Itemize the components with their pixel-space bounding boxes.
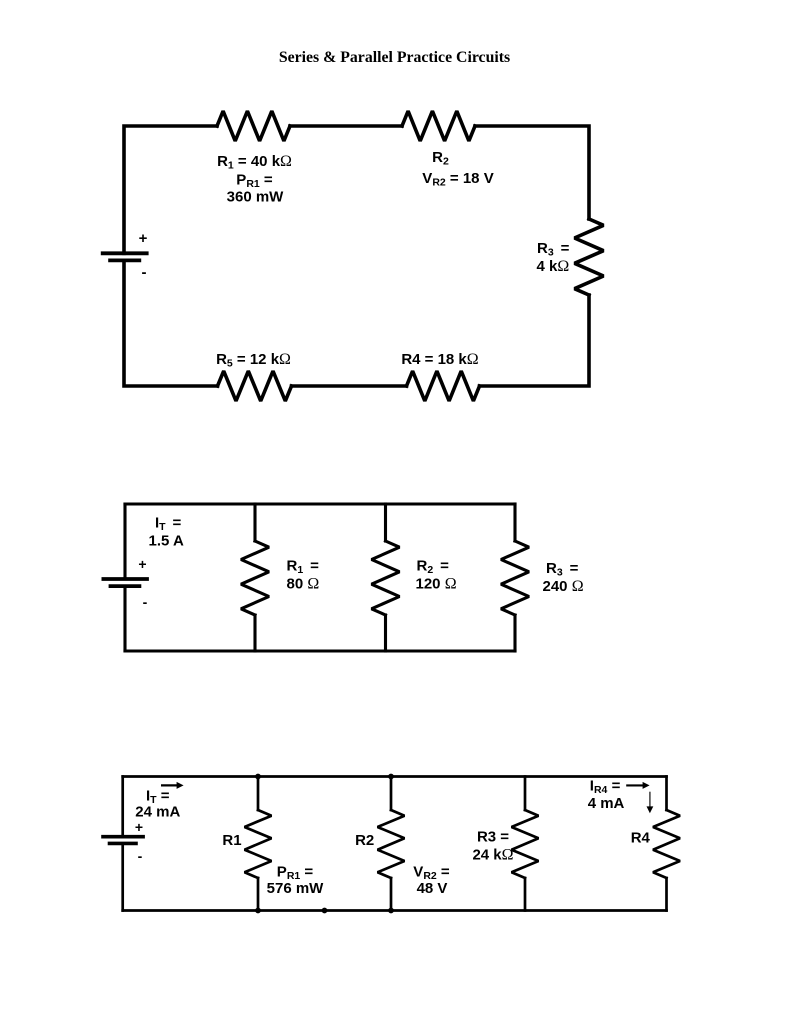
svg-text:-: - <box>138 848 143 864</box>
svg-text:4 mA: 4 mA <box>588 795 625 812</box>
svg-text:48 V: 48 V <box>417 880 448 897</box>
wire bottom <box>123 909 667 912</box>
wire top-left + left upper <box>124 126 217 253</box>
svg-text:240 Ω: 240 Ω <box>543 578 584 595</box>
wire branch R1 bottom <box>253 615 256 651</box>
svg-text:PR1 =: PR1 = <box>236 172 273 191</box>
svg-text:R5 = 12 kΩ: R5 = 12 kΩ <box>216 351 291 370</box>
arrow I_R4 current right <box>626 782 649 789</box>
wire branch R1 top <box>253 504 256 541</box>
wire right upper <box>513 504 516 541</box>
wire bottom <box>125 649 515 652</box>
resistor R3 <box>501 541 529 615</box>
svg-text:R3 =: R3 = <box>546 560 579 579</box>
wire top <box>125 502 515 505</box>
svg-text:R2: R2 <box>432 149 449 168</box>
battery V1 plates <box>101 253 149 260</box>
wire left upper <box>123 504 126 579</box>
wire branch R2 top <box>384 504 387 541</box>
svg-text:360 mW: 360 mW <box>227 189 285 206</box>
svg-text:120 Ω: 120 Ω <box>416 576 457 593</box>
svg-text:4 kΩ: 4 kΩ <box>537 258 570 275</box>
wire branch R2 bottom <box>384 615 387 651</box>
svg-text:R1 = 40 kΩ: R1 = 40 kΩ <box>217 153 292 172</box>
svg-text:+: + <box>139 230 148 247</box>
wire branch R3 top <box>524 777 527 811</box>
svg-text:VR2 = 18 V: VR2 = 18 V <box>422 170 493 189</box>
svg-text:R3 =: R3 = <box>477 829 509 846</box>
battery V3 plates <box>101 837 145 844</box>
wire left upper <box>121 777 124 837</box>
resistor R3 <box>512 810 539 878</box>
junction node bottom R2 <box>388 908 394 914</box>
resistor R2 <box>372 541 400 615</box>
svg-text:R1: R1 <box>222 832 241 849</box>
wire branch R1 top <box>257 777 260 811</box>
junction node top R1 <box>255 774 261 780</box>
svg-text:IR4 =: IR4 = <box>590 777 621 796</box>
svg-text:1.5 A: 1.5 A <box>149 533 184 550</box>
svg-text:80 Ω: 80 Ω <box>287 576 320 593</box>
junction node top R2 <box>388 774 394 780</box>
wire right upper + top-right <box>475 126 589 219</box>
svg-text:R1 =: R1 = <box>287 558 320 577</box>
svg-text:R4 = 18 kΩ: R4 = 18 kΩ <box>401 351 478 368</box>
resistor R2 <box>402 111 475 141</box>
wire left lower <box>123 586 126 651</box>
arrow I_R4 current down <box>647 792 654 814</box>
svg-text:24 kΩ: 24 kΩ <box>472 847 513 864</box>
resistor R1 <box>217 111 290 141</box>
svg-text:R2 =: R2 = <box>417 558 450 577</box>
wire branch R2 bottom <box>390 878 393 911</box>
wire left lower <box>121 843 124 910</box>
arrow IT current <box>161 782 184 789</box>
resistor R2 <box>378 810 405 878</box>
wire bottom-right + right lower <box>480 295 590 386</box>
junction node bottom R1 <box>255 908 261 914</box>
resistor R1 <box>245 810 272 878</box>
wire top middle <box>290 124 402 128</box>
wire top <box>123 775 667 778</box>
svg-text:IT =: IT = <box>155 515 182 534</box>
svg-text:R4: R4 <box>631 830 651 847</box>
resistor R3 <box>575 219 604 295</box>
resistor R4 <box>407 371 480 401</box>
resistor R4 <box>653 810 680 878</box>
svg-text:R3 =: R3 = <box>537 240 570 259</box>
wire right lower <box>513 615 516 651</box>
svg-text:R2: R2 <box>355 832 374 849</box>
wire branch R1 bottom <box>257 878 260 911</box>
wire branch R3 bottom <box>524 878 527 911</box>
svg-text:+: + <box>135 819 143 835</box>
wire left lower + bottom-left <box>124 260 218 386</box>
svg-text:24 mA: 24 mA <box>135 804 180 821</box>
svg-text:-: - <box>143 594 148 610</box>
resistor R5 <box>218 371 292 401</box>
wire right upper <box>665 777 668 811</box>
svg-text:+: + <box>138 556 146 572</box>
wire branch R2 top <box>390 777 393 811</box>
junction node bottom mid <box>322 908 328 914</box>
resistor R1 <box>241 541 269 615</box>
wire bottom middle <box>292 384 407 388</box>
svg-text:-: - <box>142 264 147 281</box>
wire right lower <box>665 878 668 911</box>
battery V2 plates <box>102 579 149 586</box>
svg-text:Series & Parallel Practice Cir: Series & Parallel Practice Circuits <box>279 49 510 66</box>
svg-text:576 mW: 576 mW <box>267 880 325 897</box>
